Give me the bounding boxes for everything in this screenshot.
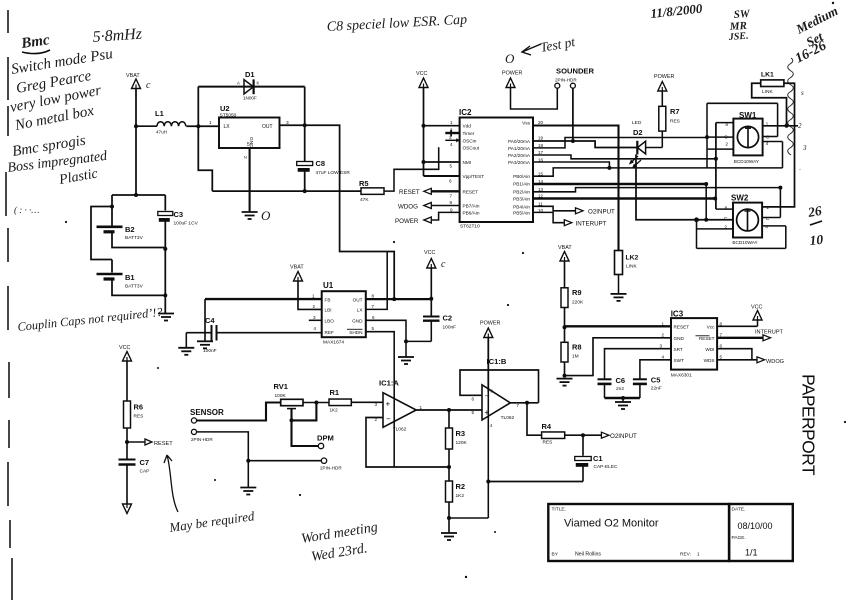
wire SW1 pin8: [716, 122, 734, 124]
svg-text:3: 3: [375, 402, 378, 407]
wire C2 bottom to ground rail: [406, 340, 431, 342]
svg-text:7: 7: [450, 194, 453, 199]
node VBAT above R9: [558, 245, 572, 261]
svg-text:PAPERPORT: PAPERPORT: [799, 374, 819, 476]
svg-text:U1: U1: [323, 281, 334, 290]
wire R5 to OSCout riser: [384, 147, 439, 191]
node flag INTERUPT from PB5: [564, 220, 606, 228]
wire PB5 pin10 to INTERUPT flag: [533, 212, 564, 222]
connector SENSOR: [190, 408, 224, 423]
handwritten note very low power: [9, 83, 103, 116]
svg-text:1: 1: [697, 552, 700, 558]
watchdog IC3 MAX6301 box: [671, 310, 717, 379]
svg-text:BCD10WAY: BCD10WAY: [734, 159, 760, 164]
svg-text:JSE.: JSE.: [727, 31, 748, 43]
wire SW2 C right drop: [762, 188, 780, 218]
node flag WDOG: [398, 203, 460, 211]
svg-text:5: 5: [372, 326, 375, 331]
svg-text:R3: R3: [456, 429, 466, 438]
svg-text:5: 5: [247, 142, 250, 148]
wire PA1 pin18 to SW1 C: [533, 138, 707, 148]
junction C5 C6 ground: [621, 396, 625, 400]
ground at U1 FB: [197, 341, 213, 348]
svg-text:LX: LX: [224, 124, 231, 130]
svg-text:R8: R8: [572, 343, 582, 352]
svg-text:D1: D1: [245, 70, 255, 79]
junction R1 left: [314, 401, 318, 405]
wire PB3 pin12 to SW1 pin8 rail: [533, 197, 715, 199]
svg-text:C4: C4: [205, 316, 215, 325]
junction IC1A out R3: [447, 408, 451, 412]
svg-text:DATE.: DATE.: [732, 507, 746, 513]
node VCC above IC2: [416, 71, 428, 88]
junction LX node: [196, 124, 200, 128]
node POWER above R7: [654, 74, 674, 91]
wire U1 GND to ground: [366, 320, 406, 341]
svg-text:REV:: REV:: [680, 552, 691, 558]
svg-text:7: 7: [720, 332, 723, 337]
svg-text:REF: REF: [325, 330, 335, 335]
svg-text:R7: R7: [670, 107, 680, 116]
svg-text:INTERUPT: INTERUPT: [755, 330, 784, 336]
svg-text:2: 2: [798, 122, 802, 130]
capacitor C3 100uF: [158, 195, 199, 249]
svg-text:PB2/Ain: PB2/Ain: [513, 190, 530, 195]
wire R9 junction to IC3 pin1: [565, 325, 672, 327]
svg-text:5: 5: [472, 410, 475, 415]
wire D2 cathode tail to SW2 C row: [636, 154, 733, 219]
wire PB1 pin14 to SW2 C left branch: [533, 183, 706, 185]
svg-text:PB4/Ain: PB4/Ain: [513, 204, 530, 209]
svg-text:2: 2: [242, 156, 248, 159]
wire battery right rail: [164, 249, 166, 314]
svg-text:WDS: WDS: [704, 358, 715, 363]
svg-text:s: s: [801, 89, 804, 97]
junction VBAT rail: [134, 193, 138, 197]
svg-text:2: 2: [725, 141, 728, 147]
svg-text:1/1: 1/1: [745, 548, 758, 558]
svg-text:SOUNDER: SOUNDER: [556, 67, 594, 76]
wire U2 GND pin 2: [242, 148, 250, 212]
wire POWER pin8 through IC1B: [487, 338, 489, 393]
svg-text:RES: RES: [134, 414, 144, 420]
svg-text:( : · ·…: ( : · ·…: [14, 205, 39, 215]
resistor R7 RES: [659, 91, 680, 148]
potentiometer RV1 100K: [274, 382, 304, 420]
handwritten note Greg Pearce: [15, 68, 93, 97]
svg-text:1K2: 1K2: [456, 493, 465, 499]
junction R2 bottom: [447, 516, 451, 520]
svg-text:TITLE.: TITLE.: [552, 507, 566, 513]
svg-text:C8: C8: [316, 159, 326, 168]
ground battery rail: [158, 314, 174, 321]
wire U1 FB to ground: [205, 299, 322, 341]
junction VCC pin5: [422, 160, 426, 164]
svg-text:WDOG: WDOG: [398, 203, 418, 210]
wire ground rail under U2: [212, 190, 361, 192]
svg-text:IC3: IC3: [671, 310, 684, 319]
op-amp IC1:A TL062: [379, 379, 416, 433]
svg-text:PAGE.: PAGE.: [732, 535, 746, 541]
junction sensor return: [246, 459, 250, 463]
svg-text:POWER: POWER: [654, 74, 674, 80]
node VCC above C2: [424, 250, 446, 270]
svg-text:1: 1: [766, 205, 769, 211]
svg-text:GND: GND: [352, 319, 363, 324]
svg-text:1N00F: 1N00F: [243, 96, 257, 101]
svg-text:8: 8: [372, 294, 375, 299]
pin 1 label U2: [209, 120, 212, 126]
title block frame: [548, 504, 793, 561]
wire R4 to O2INPUT: [565, 434, 602, 436]
svg-text:3: 3: [449, 135, 452, 140]
junction PB3 on pin8 rail: [713, 197, 717, 201]
node flag RESET bottom left: [127, 439, 173, 447]
svg-text:7: 7: [517, 403, 520, 408]
pin 3 label U2: [286, 120, 289, 126]
svg-text:100nF: 100nF: [443, 325, 457, 331]
wire U1 SHDN down: [366, 332, 394, 467]
wire RV1 to R1: [303, 402, 329, 404]
svg-text:A: A: [237, 81, 240, 86]
svg-text:SW: SW: [733, 8, 751, 21]
handwritten squiggle column: [788, 58, 807, 174]
svg-text:WDI: WDI: [705, 347, 714, 352]
svg-text:SHDN: SHDN: [349, 330, 362, 335]
junction VCC pin1: [422, 124, 426, 128]
wire C1 return to IC1B pin4: [488, 481, 583, 483]
svg-text:ST5050: ST5050: [220, 113, 237, 119]
handwritten date 11/8/2000: [650, 1, 704, 21]
svg-text:VCC: VCC: [119, 345, 130, 351]
svg-text:3: 3: [313, 315, 316, 320]
wire L1 to U2 LX: [186, 125, 219, 127]
svg-text:PB6/Ain: PB6/Ain: [463, 210, 480, 215]
left margin line segments: [6, 10, 12, 600]
wire LK1 left to SW1 pin1: [752, 83, 787, 126]
wire wiper to DPM: [292, 420, 319, 446]
junction SW1 C left: [705, 135, 709, 139]
battery B2 BATT3V: [97, 225, 144, 241]
svg-text:100K: 100K: [275, 393, 287, 399]
junction R9 R8: [563, 325, 567, 329]
svg-text:·: ·: [799, 166, 801, 174]
wire VCC into IC2 pins 1/5/6: [424, 88, 460, 177]
svg-text:47K: 47K: [360, 197, 369, 203]
wire B1 positive lead: [111, 260, 113, 273]
svg-text:SRT: SRT: [674, 347, 683, 352]
svg-text:RESET: RESET: [463, 189, 479, 194]
svg-text:R5: R5: [359, 179, 369, 188]
svg-text:9: 9: [450, 208, 453, 213]
junction PA2 on SW1 pin8 rail: [714, 157, 718, 161]
node flag O2INPUT from PB4: [576, 208, 616, 216]
junction B2 left: [110, 205, 114, 209]
junction R8 bottom: [563, 374, 567, 378]
wire PB1 branch down to SW2 C row: [705, 184, 707, 220]
svg-text:100nF: 100nF: [203, 348, 217, 354]
wire wiper to R1 node: [292, 403, 317, 421]
wire SW1 pin1 row: [763, 125, 798, 127]
svg-text:POWER: POWER: [502, 71, 522, 77]
svg-text:LBI: LBI: [325, 308, 332, 313]
svg-text:C: C: [766, 216, 770, 222]
svg-text:IC1:A: IC1:A: [379, 379, 399, 388]
wire sounder pin2 to PA0: [572, 88, 574, 141]
node flag POWER: [395, 212, 460, 224]
wire VBAT to R9: [564, 261, 566, 288]
junction sounder on PA0: [571, 139, 575, 143]
svg-text:1: 1: [312, 294, 315, 299]
svg-text:3: 3: [802, 144, 807, 152]
svg-text:LED: LED: [632, 120, 642, 126]
node flag INTERUPT at IC3 pin7: [717, 330, 783, 341]
svg-text:6: 6: [472, 397, 475, 402]
svg-text:OSCout: OSCout: [463, 145, 480, 150]
node VCC at IC3 pin8: [717, 305, 762, 327]
ground at C4: [178, 348, 194, 355]
svg-text:WDOG: WDOG: [766, 359, 784, 365]
svg-text:GND: GND: [674, 336, 685, 341]
svg-text:TL062: TL062: [393, 427, 407, 433]
svg-text:CAP-ELEC: CAP-ELEC: [594, 464, 619, 470]
svg-text:VBAT: VBAT: [558, 245, 572, 251]
svg-text:20: 20: [538, 120, 544, 125]
junction IC1B pin4 C1 return: [486, 480, 490, 484]
wire LK1 right rail to SW2 pin1: [762, 83, 794, 207]
svg-text:LK2: LK2: [626, 255, 639, 262]
svg-text:22nF: 22nF: [651, 386, 662, 392]
svg-text:Viamed O2 Monitor: Viamed O2 Monitor: [564, 518, 659, 530]
svg-text:PB3/Ain: PB3/Ain: [513, 197, 530, 202]
regulator U2 ST5050 box: [219, 104, 280, 148]
svg-text:Vss: Vss: [522, 121, 530, 126]
junction U2 OUT/D1/C8: [303, 123, 307, 127]
junction PB1 branch: [704, 182, 708, 186]
boost converter U1 MAX1674 box: [322, 281, 366, 346]
svg-text:RESET: RESET: [154, 441, 173, 447]
pin labels IC1:A: [375, 402, 423, 422]
svg-text:VCC: VCC: [416, 71, 427, 77]
svg-text:2: 2: [313, 304, 316, 309]
wire D1 rail: [198, 86, 304, 88]
svg-text:4: 4: [662, 355, 665, 360]
svg-text:1: 1: [662, 321, 665, 326]
wire R8 bottom to IC3 pin2: [565, 338, 672, 376]
battery B1 BATT3V: [97, 273, 144, 290]
pin number labels U1: [312, 294, 375, 332]
node VCC above R6: [119, 345, 132, 361]
svg-text:K: K: [257, 81, 260, 86]
wire Vss pin20 to LK2 rail: [533, 126, 619, 251]
svg-text:PA3/20mA: PA3/20mA: [508, 160, 531, 165]
connector 2PIN-HDR sensor return: [191, 429, 213, 442]
wire VCC riser to C2: [430, 268, 432, 316]
svg-text:D2: D2: [633, 128, 643, 137]
capacitor C4 100nF: [186, 316, 321, 354]
svg-text:R6: R6: [134, 403, 144, 412]
svg-text:O: O: [505, 51, 515, 66]
wire D1 cathode drop: [304, 87, 306, 126]
diode D1 1N00F: [237, 70, 260, 101]
svg-text:c: c: [441, 259, 446, 270]
wire U2 OUT to C8 junction: [280, 124, 305, 126]
node VBAT above U1: [290, 265, 304, 282]
switch SW1 BCD10WAY: [733, 111, 762, 164]
ground below U2: [242, 212, 258, 219]
resistor R4 RES: [542, 422, 565, 446]
svg-text:3: 3: [660, 344, 663, 349]
PAPERPORT sidebar text: [799, 374, 819, 476]
faint note row: [14, 205, 39, 215]
svg-text:10: 10: [809, 232, 824, 248]
wire battery left loop upper: [91, 207, 112, 260]
svg-text:R2: R2: [456, 482, 466, 491]
wire ground stem near C2: [405, 341, 407, 357]
svg-text:C: C: [724, 216, 728, 222]
junction U1 OUT link: [392, 297, 396, 301]
junction RV1 wiper: [290, 418, 294, 422]
wire PB4 pin11 to O2INPUT flag: [533, 206, 576, 211]
inductor L1 47uH: [136, 109, 186, 135]
handwritten note Bmc sprogis: [11, 133, 87, 160]
svg-text:Neil Rollins: Neil Rollins: [575, 552, 601, 558]
svg-text:RESET: RESET: [699, 336, 715, 341]
wire U1 LX riser: [366, 252, 387, 310]
handwritten note Word meeting Wed 23rd: [300, 520, 379, 565]
handwritten O next to U2 ground: [261, 208, 271, 223]
svg-text:8: 8: [450, 200, 453, 205]
svg-text:2: 2: [724, 225, 727, 231]
wire B1 negative to rail: [112, 281, 165, 296]
node flag RESET: [399, 188, 460, 196]
capacitor C8 47uF low ESR: [297, 125, 351, 191]
svg-text:4: 4: [450, 142, 453, 147]
svg-text:BCD10WAY: BCD10WAY: [732, 240, 758, 245]
svg-text:O: O: [261, 208, 271, 223]
ground below C5 C6: [615, 402, 631, 409]
svg-text:C: C: [766, 135, 770, 141]
svg-text:BATT3V: BATT3V: [125, 284, 144, 290]
junction VBAT/L1: [134, 124, 138, 128]
handwritten initials SW MR JSE: [727, 8, 751, 43]
handwritten note Boss impregnated Plastic: [7, 149, 109, 188]
wire IC1:A output: [416, 409, 482, 411]
svg-text:PB5/Ain: PB5/Ain: [513, 210, 530, 215]
svg-text:100uF 1CV: 100uF 1CV: [174, 221, 199, 227]
resistor R9 220K: [561, 288, 584, 327]
svg-text:Timer: Timer: [463, 131, 475, 136]
junction SW2 C left loop: [694, 217, 699, 222]
svg-text:19: 19: [538, 136, 544, 141]
svg-text:C3: C3: [174, 210, 184, 219]
svg-text:FB: FB: [325, 297, 331, 302]
junction C8 bottom rail: [303, 189, 307, 193]
wire IC3 pin4 to C5: [640, 360, 671, 379]
svg-text:C7: C7: [140, 458, 150, 467]
junction C3 bottom: [163, 247, 167, 251]
svg-text:220K: 220K: [572, 300, 584, 306]
svg-text:ST62T10: ST62T10: [460, 224, 480, 230]
junction R3 R2 feedback: [447, 465, 451, 469]
svg-text:1: 1: [209, 120, 212, 126]
wire PA0 pin19 to LED D2: [533, 141, 637, 148]
svg-text:OUT: OUT: [262, 124, 273, 130]
junction R6 C7 RESET: [125, 440, 129, 444]
svg-text:C2: C2: [443, 314, 453, 323]
wire IC1:B feedback loop: [460, 370, 539, 403]
svg-text:O2INPUT: O2INPUT: [610, 433, 637, 440]
pin 2 Timer stub with tick: [445, 130, 459, 137]
wire IC1:A feedback: [366, 418, 449, 468]
svg-text:B2: B2: [125, 225, 135, 234]
connector DPM: [317, 434, 334, 449]
pin 3 OSCin stub: [445, 138, 460, 142]
pin labels SW1: [724, 121, 770, 147]
svg-text:c: c: [146, 80, 151, 91]
junction R4 C1: [581, 433, 585, 437]
wire PB0 pin15 to SW1 bottom loop: [533, 168, 783, 176]
wire VBAT to L1 junction: [135, 89, 137, 196]
svg-text:VBAT: VBAT: [290, 265, 304, 271]
op-amp IC1:B TL062: [482, 357, 515, 421]
svg-text:5: 5: [720, 355, 723, 360]
handwritten test pt arrow: [505, 34, 577, 66]
svg-text:U2: U2: [220, 104, 230, 113]
svg-text:R4: R4: [542, 422, 552, 431]
wire PB2 pin13 to SW2 C right: [533, 188, 780, 192]
link LK1: [761, 72, 784, 96]
junction IC1B out: [525, 401, 529, 405]
svg-text:MAX6301: MAX6301: [671, 373, 692, 379]
ground below R8: [557, 379, 573, 386]
wire IC1:B output: [510, 402, 538, 404]
svg-text:SW2: SW2: [731, 194, 749, 203]
svg-text:RESET: RESET: [674, 324, 690, 329]
svg-text:O2INPUT: O2INPUT: [588, 208, 615, 215]
switch SW2 BCD10WAY: [731, 194, 762, 246]
svg-text:BY: BY: [552, 552, 559, 558]
svg-text:Vcc: Vcc: [707, 324, 715, 329]
svg-text:MAX1674: MAX1674: [323, 340, 344, 346]
wire LX step path: [198, 126, 212, 191]
svg-text:2PIN-HDR: 2PIN-HDR: [555, 78, 577, 83]
svg-text:LK1: LK1: [761, 72, 774, 79]
svg-text:DPM: DPM: [317, 434, 334, 443]
wire IC3 pin3 to C6: [605, 349, 672, 379]
svg-text:TL062: TL062: [501, 415, 515, 421]
svg-text:+: +: [386, 400, 391, 409]
wire SW1 pin8 rail down to SW2 pin8: [715, 123, 717, 210]
svg-text:2PIN-HDR: 2PIN-HDR: [320, 466, 342, 471]
resistor R3 120K: [446, 410, 468, 481]
svg-text:R1: R1: [330, 388, 340, 397]
svg-text:BATT3V: BATT3V: [125, 235, 144, 241]
svg-text:LINK: LINK: [626, 264, 637, 270]
svg-text:Vdd: Vdd: [463, 124, 472, 129]
handwritten note No metal box: [13, 103, 96, 134]
capacitor C6 2n2: [598, 376, 626, 398]
wire SW1 pin2: [707, 148, 733, 150]
svg-text:B1: B1: [125, 273, 135, 282]
svg-text:VBAT: VBAT: [126, 73, 140, 79]
handwritten note Switch mode Psu: [10, 46, 114, 78]
node flag O2INPUT output: [601, 432, 637, 440]
handwritten fraction 26 over 10: [806, 203, 824, 248]
microcontroller IC2 ST62T10 box: [459, 108, 533, 230]
junction C2 ground rail: [404, 339, 408, 343]
pin number labels IC2 left: [449, 120, 453, 213]
